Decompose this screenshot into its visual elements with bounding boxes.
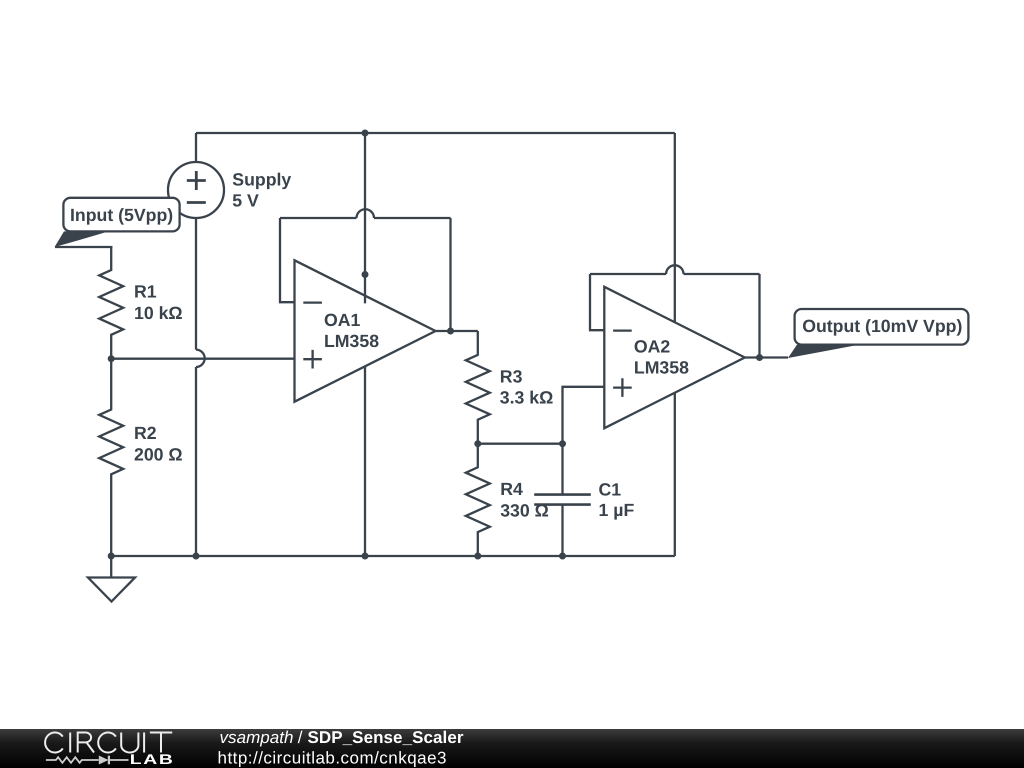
op-amp OA1 <box>295 260 436 401</box>
svg-text:OA2: OA2 <box>634 336 671 356</box>
op-amp OA2 <box>604 287 745 428</box>
svg-text:Supply: Supply <box>232 169 291 189</box>
svg-text:3.3 kΩ: 3.3 kΩ <box>500 388 554 408</box>
wire OA2 V- to ground rail <box>674 393 676 556</box>
svg-text:LAB: LAB <box>130 751 175 767</box>
svg-text:http://circuitlab.com/cnkqae3: http://circuitlab.com/cnkqae3 <box>218 748 447 767</box>
node dot ground rail at supply <box>193 553 200 560</box>
flag Output (10mV Vpp) <box>788 309 968 358</box>
wire OA1 V+ supply branch <box>364 133 366 303</box>
wire OA2 feedback top with hop at supply branch <box>590 265 760 274</box>
svg-text:1 µF: 1 µF <box>599 500 635 520</box>
flag Input (5Vpp) <box>55 198 180 247</box>
node dot OA2 output <box>756 354 763 361</box>
node dot ground rail at OA1 V- <box>362 553 369 560</box>
wire OA2 feedback right to output <box>758 274 760 358</box>
capacitor C1 <box>534 444 591 556</box>
svg-text:R1: R1 <box>134 282 157 302</box>
resistor R1 <box>99 246 123 359</box>
node dot OA1 V+ pin <box>362 271 369 278</box>
resistor R3 <box>466 331 490 444</box>
CircuitLab logo CIRCUIT <box>45 733 172 753</box>
node dot R3/R4 junction <box>474 440 481 447</box>
wire OA1 feedback left to minus input <box>280 218 295 302</box>
svg-text:5 V: 5 V <box>232 190 259 210</box>
wire OA1 output to R3 <box>436 330 478 332</box>
svg-text:Input (5Vpp): Input (5Vpp) <box>70 205 173 225</box>
svg-text:LM358: LM358 <box>634 358 689 378</box>
svg-text:R2: R2 <box>134 423 157 443</box>
wire input callout to R1 <box>55 246 111 247</box>
resistor R2 <box>99 359 123 556</box>
node dot C1 top branch <box>559 440 566 447</box>
node dot top rail / OA1 branch <box>362 130 369 137</box>
svg-text:/: / <box>298 728 303 747</box>
svg-text:10 kΩ: 10 kΩ <box>134 303 183 323</box>
node dot R1/R2 junction <box>108 355 115 362</box>
svg-text:R4: R4 <box>500 479 523 499</box>
voltage source V1 Supply <box>168 162 224 218</box>
CircuitLab logo resistor-diode underline <box>46 756 129 765</box>
node dot OA1 output <box>447 328 454 335</box>
svg-text:SDP_Sense_Scaler: SDP_Sense_Scaler <box>308 728 464 747</box>
wire top rail <box>196 132 675 134</box>
wire OA2 feedback left to minus input <box>590 274 604 330</box>
wire node row R1/R2 junction to OA1 plus input <box>111 358 294 360</box>
node dot ground rail at C1 <box>559 553 566 560</box>
wire ground rail <box>111 555 675 557</box>
svg-text:LM358: LM358 <box>324 331 379 351</box>
wire OA2 V+ supply branch <box>674 133 676 322</box>
svg-text:Output (10mV Vpp): Output (10mV Vpp) <box>802 316 962 336</box>
wire OA1 feedback right to output <box>449 218 451 331</box>
footer bar <box>0 729 1024 768</box>
wire OA2 output to callout <box>745 356 788 358</box>
node dot ground rail at R2 <box>108 553 115 560</box>
svg-text:R3: R3 <box>500 366 523 386</box>
wire supply top lead <box>195 133 197 162</box>
resistor R4 <box>466 444 490 556</box>
wire C1 branch up to OA2 plus input <box>563 387 605 444</box>
svg-text:330 Ω: 330 Ω <box>500 501 549 521</box>
wire supply bottom with hop over node row <box>196 218 205 556</box>
svg-text:200 Ω: 200 Ω <box>134 444 183 464</box>
node dot ground rail at R4 <box>474 553 481 560</box>
svg-text:C1: C1 <box>599 479 622 499</box>
wire OA1 feedback top with hop at supply branch <box>280 209 451 218</box>
svg-text:OA1: OA1 <box>324 310 361 330</box>
wire R3 bottom node to C1 node <box>478 443 563 445</box>
CircuitLab logo diode triangle <box>99 756 109 765</box>
svg-text:vsampath: vsampath <box>220 728 294 747</box>
wire OA1 V- to ground rail <box>364 366 366 556</box>
ground <box>88 556 135 602</box>
